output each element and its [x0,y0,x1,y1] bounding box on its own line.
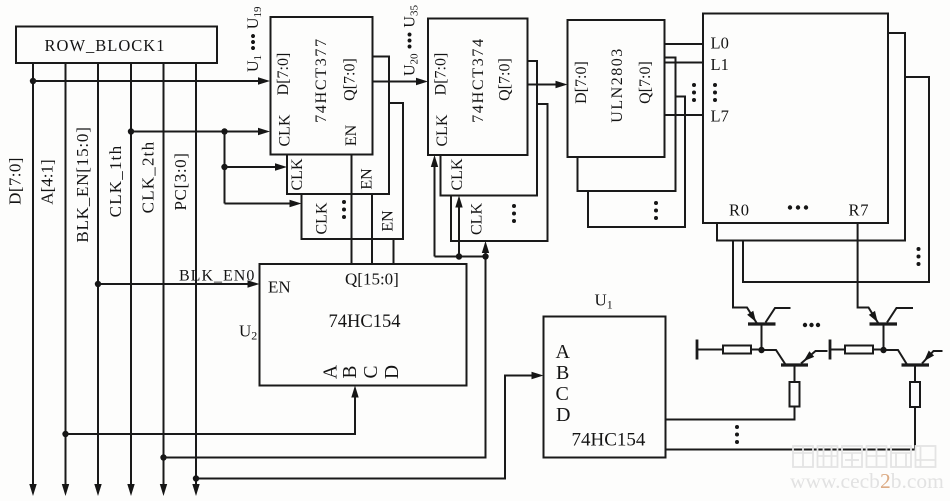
dots vertical ellipsis (third panel) [917,247,921,266]
node PC tap junction dot [193,475,199,481]
svg-text:A: A [556,341,571,363]
svg-text:B: B [340,365,361,378]
svg-text:CLK: CLK [289,158,306,190]
resistor R2 (vertical) [790,382,800,407]
wire CLK_1th vertical bus line [130,63,132,487]
transistor Q2 base bar [781,363,808,366]
svg-text:L7: L7 [711,107,729,126]
wire D[7:0] vertical bus line [32,63,34,487]
svg-text:CLK: CLK [449,158,466,190]
wire ULN Q to L0 [665,43,704,45]
svg-text:Q[7:0]: Q[7:0] [342,58,359,101]
node D-tap junction dot [30,78,36,84]
wire resistor R3 to node [873,349,881,351]
wire BLK_EN[15:0] vertical bus line [97,63,99,487]
wire CLK_2th vertical bus line [163,63,165,487]
svg-text:CLK_2th: CLK_2th [139,141,158,214]
svg-text:Q[7:0]: Q[7:0] [497,58,514,101]
wire harness to second 374 CLK [458,207,460,257]
wire Q3 base down [883,326,885,348]
node base junction dot 1 [758,347,764,353]
node harness junction dot 1 [456,253,462,259]
wire U1 output row0 to Q2 resistor [666,407,795,420]
svg-text:R0: R0 [729,201,750,220]
svg-text:D[7:0]: D[7:0] [6,157,25,205]
transistor Q3 PNP emitter arrow [869,311,878,322]
wire 374 clock harness horizontal [435,256,486,258]
svg-text:CLK: CLK [434,114,451,146]
svg-text:74HCT377: 74HCT377 [313,37,330,123]
wire PC[3:0] to U1 ABCD [196,376,533,479]
dots vertical ellipsis (third ULN) [654,201,658,220]
svg-text:D: D [382,365,403,379]
wire harness to third 374 CLK [485,252,487,257]
dots vertical ellipsis (L column inside) [713,83,717,102]
LED matrix front panel [703,14,888,224]
node CLK branch 2 junction dot [221,164,227,170]
dots vertical ellipsis (L column outside) [692,83,696,102]
svg-text:www.cecb2b.com: www.cecb2b.com [790,469,944,493]
svg-text:A[4:1]: A[4:1] [38,159,57,204]
wire rail to resistor R1 [698,349,723,351]
node A[4:1] tap junction dot [62,431,68,437]
driver ULN2803 second stacked box [578,58,676,192]
wire CLK to second 74HCT377 CLK [225,166,277,168]
dots vertical ellipsis (third 377) [342,200,346,219]
dots horizontal ellipsis (between driver groups) [803,323,820,327]
node harness junction dot 2 [482,253,488,259]
register 74HCT377 third stacked box [302,103,404,239]
svg-text:74HC154: 74HC154 [572,430,646,451]
wire PC[3:0] vertical bus line [195,63,197,487]
svg-text:ULN2803: ULN2803 [609,47,626,122]
power rail stub 2 [829,340,832,360]
transistor Q3 PNP base bar [870,322,898,325]
wire Q4 collector down [914,367,916,383]
register 74HCT374 third stacked box [451,104,548,241]
svg-text:EN: EN [268,278,291,297]
LED matrix second stacked panel [717,33,905,241]
svg-text:D[7:0]: D[7:0] [275,53,292,96]
wire rail to resistor R3 [831,349,845,351]
svg-text:74HCT374: 74HCT374 [470,37,487,123]
wire A[4:1] to U2 ABCD select [66,397,356,435]
resistor R1 (horizontal) [723,346,751,354]
dots horizontal ellipsis (R row) [788,205,808,209]
transistor Q1 PNP base bar [748,322,776,325]
svg-text:CLK: CLK [469,203,486,235]
register U1 74HCT377 front box [271,17,373,155]
decoder U2 74HC154 box [260,264,467,386]
wire A[4:1] vertical bus line [65,63,67,487]
svg-text:BLK_EN[15:0]: BLK_EN[15:0] [73,126,92,242]
svg-text:A: A [321,365,342,379]
svg-text:C: C [556,383,569,405]
svg-text:Q[7:0]: Q[7:0] [637,61,654,104]
wire matrix R0 to Q1 emitter [733,241,757,324]
wire Q1 base down [761,326,763,348]
watermark graphics [793,446,936,467]
svg-text:U1 ••• U19: U1 ••• U19 [244,6,264,72]
wire node to Q2 base [765,350,786,365]
decoder U1 74HC154 box [544,317,666,458]
wire front 377 EN to U2 Q [351,155,353,265]
wire BLK_EN0 to U2 EN [98,283,249,285]
svg-text:EN: EN [359,168,376,190]
svg-text:CLK_1th: CLK_1th [106,145,125,218]
svg-text:CLK: CLK [277,114,294,146]
svg-text:EN: EN [380,210,397,232]
transistor Q4 emitter with arrow [922,351,943,364]
wire 377 Q to 374 D [373,81,418,83]
svg-text:D[7:0]: D[7:0] [433,53,450,96]
svg-text:U2: U2 [239,322,257,343]
driver ULN2803 front box [568,20,665,157]
svg-text:L1: L1 [711,55,729,74]
transistor Q4 base bar [902,363,930,366]
svg-text:ROW_BLOCK1: ROW_BLOCK1 [45,36,166,55]
svg-text:EN: EN [343,124,360,146]
wire second 377 EN to U2 Q [371,194,373,264]
wire CLK to third 74HCT377 CLK [225,203,291,205]
register 74HCT377 second stacked box [287,57,389,195]
node BLK_EN tap junction dot [95,281,101,287]
transistor Q3 collector [887,308,913,323]
node CLK_2th tap junction dot [160,454,166,460]
wire U1 output row7 to Q4 resistor [666,407,916,450]
wire CLK_1th to front 74HCT377 CLK [131,131,259,133]
svg-text:U20 ••• U35: U20 ••• U35 [401,5,421,76]
wire node to Q4 base [887,350,908,365]
dots vertical ellipsis (U1 outputs) [735,425,739,444]
wire 374 Q to ULN D [528,84,557,86]
wire ULN Q to L7 [665,114,704,116]
register U20 74HCT374 front box [428,19,528,156]
transistor Q1 PNP emitter arrow [747,311,756,322]
dots vertical ellipsis (third 374) [512,204,516,223]
wire third 377 EN to U2 Q [393,239,395,264]
svg-text:D[7:0]: D[7:0] [573,61,590,104]
ROW_BLOCK1 block [16,27,217,64]
resistor R4 (vertical) [910,382,920,407]
transistor Q1 collector [766,308,791,323]
svg-text:PC[3:0]: PC[3:0] [171,152,190,210]
svg-text:CLK: CLK [314,202,331,234]
wire D[7:0] to U1..U19 D input [33,80,259,82]
wire matrix R7 to Q3 emitter [858,223,879,324]
register 74HCT374 second stacked box [441,61,538,196]
node base junction dot 2 [880,347,886,353]
wire CLK_2th to 374 clock harness [164,257,486,458]
svg-text:U1: U1 [595,291,613,312]
svg-text:R7: R7 [849,201,870,220]
wire resistor R1 to node [751,349,759,351]
svg-text:C: C [361,365,382,378]
driver ULN2803 third stacked box [588,97,685,228]
wire CLK branch down [224,132,226,204]
node CLK branch junction dot [221,128,227,134]
svg-text:D: D [556,404,570,426]
svg-text:B: B [556,362,569,384]
wire harness to front 374 CLK [434,166,436,257]
power rail stub 1 [696,340,699,360]
node CLK_1th tap junction dot [128,128,134,134]
resistor R3 (horizontal) [845,346,873,354]
wire ULN Q to L1 [665,62,704,64]
wire Q2 collector down [794,367,796,383]
svg-text:BLK_EN0: BLK_EN0 [179,268,255,285]
svg-text:L0: L0 [711,34,729,53]
svg-text:Q[15:0]: Q[15:0] [345,270,399,289]
svg-text:74HC154: 74HC154 [329,312,401,332]
LED matrix third stacked panel [743,77,929,282]
transistor Q2 emitter with arrow [801,351,828,364]
